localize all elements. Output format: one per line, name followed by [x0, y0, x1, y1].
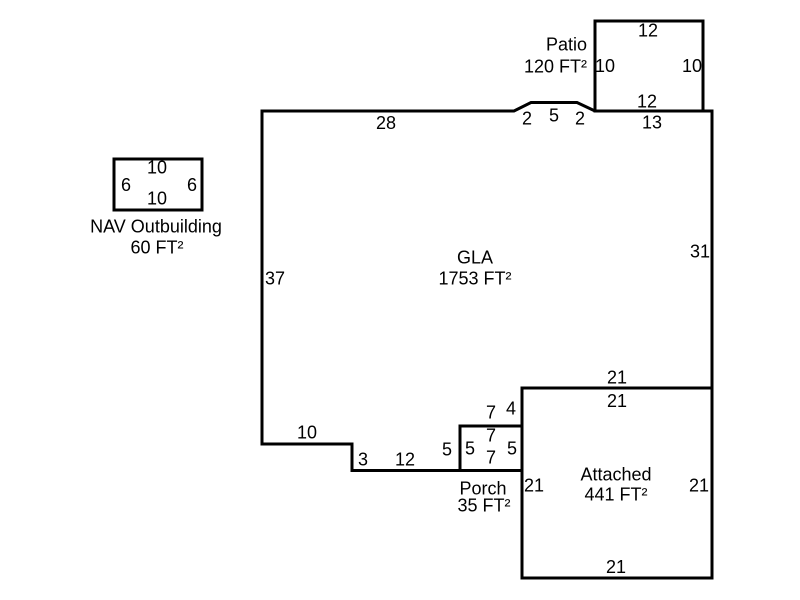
svg-text:NAV Outbuilding: NAV Outbuilding: [90, 217, 222, 237]
svg-text:5: 5: [442, 440, 452, 460]
svg-text:5: 5: [549, 106, 559, 126]
svg-text:5: 5: [465, 439, 475, 459]
svg-text:21: 21: [524, 476, 544, 496]
svg-text:21: 21: [689, 476, 709, 496]
svg-text:1753 FT²: 1753 FT²: [438, 269, 511, 289]
svg-text:7: 7: [486, 403, 496, 423]
svg-text:4: 4: [506, 399, 516, 419]
svg-text:Patio: Patio: [546, 35, 587, 55]
svg-text:10: 10: [147, 189, 167, 209]
svg-text:37: 37: [265, 269, 285, 289]
svg-text:7: 7: [486, 448, 496, 468]
svg-text:35 FT²: 35 FT²: [457, 496, 510, 516]
svg-text:441 FT²: 441 FT²: [584, 485, 647, 505]
svg-text:10: 10: [297, 423, 317, 443]
svg-text:21: 21: [606, 557, 626, 577]
svg-text:10: 10: [147, 158, 167, 178]
svg-text:31: 31: [690, 242, 710, 262]
svg-text:28: 28: [376, 113, 396, 133]
svg-text:3: 3: [358, 450, 368, 470]
svg-text:10: 10: [595, 56, 615, 76]
svg-text:2: 2: [575, 109, 585, 129]
svg-text:21: 21: [607, 391, 627, 411]
svg-text:13: 13: [642, 113, 662, 133]
svg-text:6: 6: [187, 175, 197, 195]
svg-text:12: 12: [637, 92, 657, 112]
svg-text:2: 2: [522, 109, 532, 129]
svg-text:12: 12: [395, 450, 415, 470]
svg-text:21: 21: [607, 368, 627, 388]
svg-text:60 FT²: 60 FT²: [130, 238, 183, 258]
svg-text:5: 5: [507, 439, 517, 459]
svg-text:10: 10: [682, 56, 702, 76]
svg-text:12: 12: [638, 21, 658, 41]
svg-text:6: 6: [121, 175, 131, 195]
svg-text:Attached: Attached: [580, 465, 651, 485]
svg-text:7: 7: [486, 426, 496, 446]
svg-text:GLA: GLA: [457, 248, 493, 268]
svg-text:120 FT²: 120 FT²: [524, 57, 587, 77]
